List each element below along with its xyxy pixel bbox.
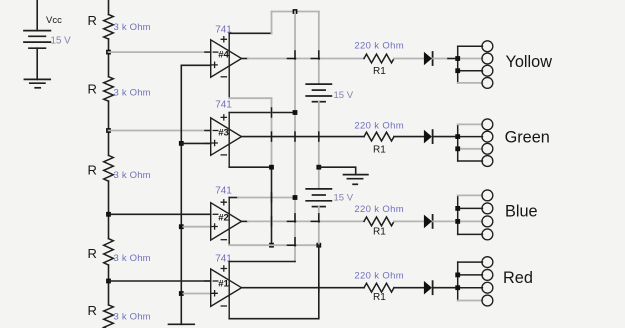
wire R1 to diode D3 bbox=[394, 220, 424, 222]
wire U3 V- supply bbox=[229, 166, 271, 168]
resistor R (3k, second) bbox=[104, 77, 114, 101]
diode D4 bbox=[424, 281, 432, 295]
wire crossing tick row3/battery column bbox=[311, 214, 319, 222]
svg-text:220 k Ohm: 220 k Ohm bbox=[354, 120, 404, 131]
ground (left) bbox=[24, 79, 50, 87]
wire ladder seg 4-5 bbox=[108, 265, 110, 305]
wire U1 V+ supply bbox=[229, 261, 295, 263]
node bus-U1 bbox=[179, 291, 184, 296]
wire R1 to diode D4 bbox=[394, 287, 424, 289]
wire ground node to ground symbol bbox=[319, 167, 356, 174]
wire R1 to diode D1 bbox=[394, 58, 424, 60]
svg-text:R: R bbox=[88, 13, 97, 28]
connector J4 (Red LEDs) bbox=[458, 257, 493, 306]
battery V2 (+15 V) bbox=[306, 84, 331, 102]
svg-text:R1: R1 bbox=[373, 145, 386, 156]
op-amp U1 (741 #1) bbox=[205, 262, 242, 319]
wire crossing tick row3/+15 rail bbox=[288, 214, 296, 222]
wire crossing tick row1/+15 rail bbox=[288, 51, 296, 59]
wire -15V distribution (U2 V-) bbox=[229, 244, 319, 246]
svg-text:3 k Ohm: 3 k Ohm bbox=[114, 22, 151, 33]
svg-text:Blue: Blue bbox=[505, 203, 538, 221]
wire battery column drop bbox=[318, 12, 320, 85]
svg-text:R: R bbox=[88, 246, 97, 261]
node J4 pin2 bbox=[455, 273, 460, 278]
wire crossing tick row2/-15 rail bbox=[271, 132, 273, 141]
node J1 pin3 bbox=[455, 68, 460, 73]
node tap3 bbox=[106, 212, 111, 217]
wire U2 output stub bbox=[242, 220, 249, 222]
battery V4 (input source, bottom) bbox=[169, 323, 195, 325]
wire bus to U1 non-inverting input bbox=[183, 293, 210, 295]
wire bus to U2 non-inverting input bbox=[183, 226, 210, 228]
node top rail bbox=[293, 9, 298, 14]
svg-text:3 k Ohm: 3 k Ohm bbox=[114, 88, 151, 99]
wire non-inverting input bus bbox=[181, 65, 210, 324]
wire crossing tick row3/-15 rail bbox=[271, 217, 273, 226]
svg-text:220 k Ohm: 220 k Ohm bbox=[354, 271, 404, 282]
wire tap3 to U2 inverting input bbox=[109, 213, 211, 215]
node J3 input bbox=[455, 219, 460, 224]
svg-text:15 V: 15 V bbox=[334, 90, 354, 101]
wire row3 output to R1 bbox=[248, 220, 364, 222]
node battery V3 minus bbox=[316, 243, 321, 248]
node -15V rail bottom bbox=[269, 243, 274, 248]
connector J2 (Green LEDs) bbox=[458, 119, 493, 166]
wire crossing tick U2 supply/-15 rail bbox=[271, 193, 273, 202]
svg-text:3 k Ohm: 3 k Ohm bbox=[114, 170, 151, 181]
wire D2 to connector J2 bbox=[433, 136, 458, 138]
wire U3 V+ supply bbox=[229, 112, 295, 114]
svg-text:Green: Green bbox=[505, 128, 550, 146]
svg-text:3 k Ohm: 3 k Ohm bbox=[114, 253, 151, 264]
wire U4 V+ supply to top rail bbox=[229, 32, 271, 34]
wire bus to U3 non-inverting input bbox=[181, 142, 210, 144]
svg-text:Vcc: Vcc bbox=[46, 15, 62, 26]
wire ladder seg 1-2 bbox=[108, 39, 110, 77]
node U3 V- bbox=[269, 165, 274, 170]
wire D3 to connector J3 bbox=[433, 220, 458, 222]
svg-text:15 V: 15 V bbox=[51, 35, 72, 46]
wire tap2 to U3 inverting input bbox=[109, 130, 211, 132]
op-amp U3 (741 #3) bbox=[205, 113, 242, 168]
wire R1 to diode D2 bbox=[394, 136, 424, 138]
diode D3 bbox=[424, 215, 432, 229]
svg-text:741: 741 bbox=[215, 185, 232, 196]
wire -15V vertical rail (upper) bbox=[271, 98, 273, 167]
svg-text:3 k Ohm: 3 k Ohm bbox=[114, 311, 151, 322]
svg-text:220 k Ohm: 220 k Ohm bbox=[354, 41, 404, 52]
node J2 input bbox=[455, 134, 460, 139]
connector J3 (Blue LEDs) bbox=[458, 190, 493, 240]
wire crossing tick row4/battery column bbox=[318, 283, 320, 292]
wire D4 to connector J4 bbox=[433, 287, 458, 289]
resistor R (3k, bottom) bbox=[104, 305, 114, 328]
node J1 input bbox=[455, 56, 460, 61]
wire crossing tick -15 line/+15 rail bbox=[288, 238, 296, 246]
svg-text:220 k Ohm: 220 k Ohm bbox=[354, 204, 404, 215]
svg-text:#3: #3 bbox=[218, 128, 229, 139]
svg-text:R1: R1 bbox=[373, 66, 386, 77]
resistor R1 (220k row4) bbox=[364, 283, 394, 292]
resistor R (3k, top) bbox=[104, 15, 114, 40]
wire U2 V+ supply stub bbox=[229, 197, 238, 199]
wire ladder top bbox=[108, 0, 110, 15]
wire U4 V- supply bbox=[229, 97, 271, 99]
wire crossing tick row2/+15 rail bbox=[294, 132, 296, 141]
diode D2 bbox=[424, 130, 432, 144]
svg-text:R: R bbox=[88, 303, 97, 318]
wire -15V vertical rail (lower) bbox=[271, 167, 273, 245]
connector J1 (Yellow LEDs) bbox=[458, 41, 493, 89]
svg-text:#1: #1 bbox=[218, 279, 229, 290]
op-amp U4 (741 #4) bbox=[205, 33, 242, 98]
wire Vcc top to battery V1 bbox=[36, 0, 38, 30]
node U3 V+ bbox=[293, 110, 298, 115]
svg-text:741: 741 bbox=[215, 100, 232, 111]
resistor R1 (220k row1) bbox=[364, 54, 394, 63]
wire ladder seg 2-3 bbox=[108, 101, 110, 155]
node J2 pin3 bbox=[455, 146, 460, 151]
svg-text:#2: #2 bbox=[218, 212, 229, 223]
wire row1 output to R1 bbox=[248, 58, 364, 60]
diode D1 bbox=[424, 52, 432, 66]
svg-text:R1: R1 bbox=[373, 292, 386, 303]
svg-text:741: 741 bbox=[215, 253, 232, 264]
node tap2 bbox=[106, 128, 111, 133]
svg-text:R1: R1 bbox=[373, 227, 386, 238]
resistor R (3k, third) bbox=[104, 155, 114, 181]
node bus-U2 bbox=[179, 224, 184, 229]
wire U2 V+ supply bbox=[238, 197, 295, 199]
wire tap4 to U1 inverting input bbox=[109, 280, 211, 282]
node J4 input bbox=[455, 285, 460, 290]
wire +15V top rail bbox=[272, 11, 319, 13]
wire U3 output row2 bbox=[242, 136, 365, 138]
resistor R1 (220k row3) bbox=[364, 217, 394, 226]
wire tap1 to U4 inverting input bbox=[109, 51, 211, 53]
node tap1 bbox=[106, 50, 111, 55]
battery V3 (-15 V) bbox=[306, 189, 331, 207]
ground (middle) bbox=[344, 175, 368, 185]
node bus-U3 bbox=[179, 141, 184, 146]
node mid ground bbox=[316, 165, 321, 170]
wire battery V3 minus down bbox=[318, 207, 320, 246]
node tap4 bbox=[106, 279, 111, 284]
wire U1 output row4 bbox=[242, 287, 365, 289]
wire crossing tick U3 supply/-15 rail bbox=[271, 108, 273, 117]
wire battery V1 to ground bbox=[36, 48, 38, 79]
resistor R (3k, fourth) bbox=[104, 239, 114, 265]
wire ladder seg 3-4 bbox=[108, 181, 110, 239]
wire -15V to U1 V- supply bbox=[229, 245, 319, 319]
wire riser to +15V rail bbox=[271, 12, 273, 34]
wire crossing tick row1/battery column bbox=[311, 51, 319, 59]
node U2 V+ bbox=[293, 195, 298, 200]
svg-text:Yollow: Yollow bbox=[506, 53, 553, 71]
resistor R1 (220k row2) bbox=[364, 132, 394, 141]
op-amp U2 (741 #2) bbox=[205, 198, 242, 246]
wire D1 to connector J1 bbox=[433, 58, 448, 60]
wire +15V vertical rail bbox=[294, 12, 296, 262]
svg-text:#4: #4 bbox=[218, 49, 229, 60]
wire U4 output stub bbox=[242, 58, 249, 60]
svg-text:15 V: 15 V bbox=[334, 192, 354, 203]
wire crossing tick row2/battery column bbox=[318, 132, 320, 141]
battery V1 (15 V source) bbox=[24, 31, 50, 49]
node J3 pin2 bbox=[455, 206, 460, 211]
svg-text:R: R bbox=[88, 163, 97, 178]
wire battery V2 minus to ground node bbox=[318, 102, 320, 189]
svg-text:R: R bbox=[88, 81, 97, 96]
svg-text:Red: Red bbox=[503, 269, 533, 287]
